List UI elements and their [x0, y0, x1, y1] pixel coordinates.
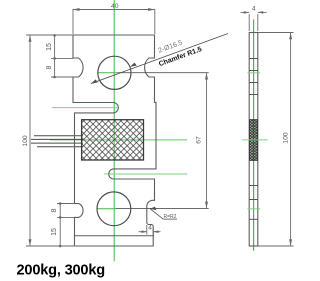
leader line for hole callout [91, 34, 228, 84]
side centerline tick middle [242, 139, 268, 141]
svg-text:4: 4 [252, 6, 256, 13]
side centerline vertical [253, 20, 255, 251]
svg-text:2-Ø16.5: 2-Ø16.5 [157, 39, 183, 54]
svg-text:15: 15 [51, 228, 58, 236]
hole top circle [98, 56, 131, 89]
side view body [249, 33, 258, 247]
hole bottom circle [97, 192, 131, 226]
svg-text:100: 100 [283, 132, 290, 144]
svg-text:40: 40 [111, 3, 119, 10]
wire inner edge line near bottom [74, 235, 154, 237]
node centerline lower slot [104, 173, 187, 175]
dimension 67 right of front view [116, 73, 209, 209]
node centerline top hole horizontal [98, 72, 118, 74]
wire lead 2 [31, 138, 83, 140]
svg-text:8: 8 [46, 65, 53, 69]
wire lead 3 [31, 142, 83, 144]
svg-text:R=R2: R=R2 [164, 214, 177, 220]
node centerline vertical main [113, 0, 115, 261]
svg-text:200kg, 300kg: 200kg, 300kg [17, 263, 105, 279]
svg-text:8: 8 [51, 208, 58, 212]
svg-text:100: 100 [22, 135, 29, 147]
side centerline tick top hole [248, 72, 261, 74]
dimension 4 bottom right [139, 225, 161, 235]
wire lead 1 [34, 135, 83, 137]
dimension 100 left [26, 35, 75, 246]
node centerline bottom hole horizontal [97, 208, 116, 210]
svg-text:4: 4 [148, 225, 152, 232]
svg-text:67: 67 [196, 136, 203, 144]
node centerline upper slot [52, 107, 117, 109]
dimension 100 right side view [258, 33, 294, 247]
side centerline tick bottom hole [248, 208, 261, 210]
dimension 15 top-left [51, 34, 73, 78]
leader R=R2 bottom right [150, 207, 177, 220]
dimension 4 side view top [241, 11, 267, 31]
side view hatched section [250, 120, 258, 161]
load cell body outline front view [73, 35, 156, 246]
svg-text:15: 15 [46, 43, 53, 51]
strain gauge hatched rectangle [82, 120, 144, 160]
node centerline middle [50, 139, 187, 141]
side view division lines [249, 58, 258, 60]
wire lead 4 [37, 146, 83, 148]
dimension 8 bottom-left [57, 202, 75, 247]
dimension 40 top [73, 8, 155, 34]
